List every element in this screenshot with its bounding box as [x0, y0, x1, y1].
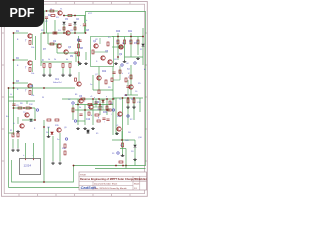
- diode D8: [142, 44, 145, 46]
- transistor Q5: [66, 31, 70, 35]
- resistor R23: [69, 64, 71, 68]
- wire: [102, 99, 104, 110]
- svg-text:R7: R7: [43, 49, 47, 51]
- resistor R52: [92, 50, 94, 54]
- svg-text:T: T: [25, 66, 27, 70]
- wire collector Q2: [31, 61, 33, 72]
- svg-text:Q4: Q4: [93, 41, 97, 43]
- wire: [69, 68, 71, 74]
- wire: [84, 26, 86, 33]
- wire: [77, 99, 79, 125]
- svg-text:+5: +5: [90, 96, 93, 98]
- wire: [43, 68, 45, 74]
- svg-text:R8: R8: [80, 48, 84, 50]
- ground: [61, 74, 65, 77]
- wire: [43, 11, 45, 33]
- capacitor C1: [45, 17, 48, 18]
- wire: [112, 36, 143, 38]
- wire: [59, 133, 61, 161]
- ground: [114, 62, 118, 65]
- svg-text:Q9: Q9: [119, 54, 123, 56]
- wire: [46, 19, 48, 33]
- svg-text:W: W: [42, 97, 44, 99]
- svg-text:f: f: [111, 114, 112, 116]
- wire: [98, 67, 100, 91]
- svg-text:K: K: [34, 128, 36, 130]
- ground: [84, 62, 88, 65]
- wire battery -: [33, 143, 35, 158]
- wire: [125, 149, 127, 166]
- wire: [130, 65, 132, 95]
- wire: [134, 148, 136, 160]
- svg-text:C2: C2: [45, 21, 48, 23]
- resistor R62: [109, 101, 111, 104]
- wire: [120, 148, 126, 150]
- svg-text:Q2: Q2: [53, 41, 57, 43]
- wire: [57, 52, 76, 54]
- ground: [16, 130, 20, 133]
- wire: [75, 109, 110, 111]
- node: [30, 107, 32, 109]
- diode D12: [134, 145, 137, 147]
- resistor R44: [122, 143, 124, 147]
- wire: [127, 98, 129, 125]
- wire: [75, 104, 113, 106]
- svg-text:R9: R9: [108, 87, 111, 89]
- svg-text:e: e: [106, 96, 107, 98]
- node: [77, 104, 79, 106]
- svg-text:Q8: Q8: [47, 127, 51, 129]
- resistor R27: [26, 107, 30, 109]
- wire: [85, 52, 87, 60]
- transistor Q16: [20, 124, 24, 128]
- wire: [130, 33, 132, 57]
- wire: [52, 136, 54, 161]
- svg-text:2k: 2k: [79, 107, 81, 109]
- node: [130, 36, 132, 38]
- resistor R29: [55, 119, 59, 121]
- svg-text:C8: C8: [86, 30, 90, 32]
- resistor R66: [74, 27, 76, 30]
- svg-text:S: S: [96, 61, 98, 63]
- svg-text:S1: S1: [112, 153, 115, 155]
- svg-text:Q3: Q3: [68, 47, 72, 49]
- wire: [115, 98, 117, 135]
- wire: [34, 108, 36, 120]
- wire: [48, 127, 50, 135]
- wire: [95, 168, 146, 170]
- wire: [17, 117, 19, 124]
- node: [13, 87, 15, 89]
- svg-text:TITLE:: TITLE:: [80, 174, 87, 176]
- wire: [95, 99, 97, 107]
- svg-text:c: c: [84, 101, 85, 103]
- node: [34, 119, 36, 121]
- svg-text:K1: K1: [96, 133, 99, 135]
- svg-text:T2: T2: [127, 69, 130, 71]
- frame column ticks top: [2, 2, 148, 197]
- svg-text:D9: D9: [131, 151, 134, 153]
- ground: [91, 127, 95, 130]
- resistor R60: [81, 98, 85, 100]
- connector pad P4: [36, 109, 38, 111]
- resistor R11: [29, 41, 31, 45]
- svg-text:2k: 2k: [54, 59, 56, 61]
- svg-text:10k: 10k: [31, 95, 34, 97]
- node: [117, 36, 119, 38]
- ground: [11, 149, 15, 152]
- resistor R68: [97, 120, 100, 122]
- resistor R11: [78, 52, 80, 56]
- svg-text:Sheet:: Sheet:: [134, 183, 140, 186]
- svg-text:R6: R6: [20, 103, 23, 105]
- diode D9: [87, 130, 90, 132]
- svg-text:F1: F1: [10, 130, 13, 132]
- wire: [112, 67, 114, 96]
- resistor R38: [17, 133, 19, 137]
- resistor R19: [105, 80, 107, 84]
- ground: [123, 60, 127, 63]
- transistor Q1: [28, 34, 32, 38]
- ground: [76, 127, 80, 130]
- svg-text:1n: 1n: [90, 84, 92, 86]
- svg-text:d: d: [91, 115, 92, 117]
- resistor R26: [18, 107, 22, 109]
- svg-text:12/24: 12/24: [24, 164, 32, 168]
- relay contact: [87, 131, 90, 133]
- wire: [9, 96, 15, 98]
- wire: [9, 100, 36, 102]
- wire left rail: [13, 33, 15, 135]
- resistor R18: [125, 78, 127, 82]
- wire: [93, 89, 113, 91]
- svg-text:Q9: Q9: [64, 127, 68, 129]
- svg-text:B1: B1: [75, 94, 78, 96]
- ground: [16, 149, 20, 152]
- frame outer border: [2, 2, 148, 197]
- svg-text:T: T: [25, 89, 27, 93]
- svg-text:Date: 2023-05-10 Drawn By:: Date: 2023-05-10 Drawn By: Maruthi: [94, 187, 127, 190]
- ground: [68, 74, 72, 77]
- svg-text:C13: C13: [137, 102, 142, 104]
- wire: [17, 139, 19, 148]
- transistor Q6: [57, 44, 61, 48]
- diode D4: [74, 22, 77, 24]
- svg-text:R21: R21: [128, 31, 133, 33]
- svg-text:R12: R12: [29, 104, 34, 106]
- resistor R37: [12, 133, 14, 137]
- wire: [92, 75, 94, 90]
- capacitor C23: [106, 119, 109, 120]
- node: [84, 109, 86, 111]
- svg-text:1k: 1k: [136, 41, 138, 43]
- ground: [78, 62, 82, 65]
- wire: [74, 25, 76, 33]
- wire feedback: [35, 36, 37, 60]
- wire: [62, 98, 115, 100]
- node: [63, 15, 65, 17]
- connector pad P6: [65, 138, 67, 140]
- ground: [115, 132, 119, 135]
- wire: [112, 95, 114, 135]
- wire: [78, 72, 80, 81]
- capacitor C7: [83, 24, 86, 26]
- svg-text:g: g: [98, 117, 99, 119]
- svg-text:Q1: Q1: [70, 30, 74, 32]
- svg-text:G2: G2: [126, 63, 130, 65]
- wire: [9, 132, 14, 134]
- svg-text:F2: F2: [130, 119, 133, 121]
- connector pad P3: [74, 120, 76, 122]
- ground: [136, 57, 140, 60]
- capacitor C14: [68, 24, 71, 25]
- svg-text:B: B: [17, 89, 19, 91]
- svg-text:-: -: [32, 154, 33, 157]
- svg-text:Document Number: Sheet: Document Number: Sheet: [94, 183, 118, 186]
- svg-text:C5: C5: [65, 19, 69, 21]
- wire: [75, 54, 77, 62]
- connector pad P8: [117, 152, 119, 154]
- node: [23, 107, 25, 109]
- ground: [121, 154, 125, 157]
- ground: [48, 74, 52, 77]
- node: [98, 98, 100, 100]
- svg-text:a: a: [94, 97, 95, 99]
- node: [13, 107, 15, 109]
- node: [122, 97, 124, 99]
- wire: [92, 99, 94, 125]
- resistor R46: [119, 161, 123, 163]
- ground: [83, 127, 87, 130]
- node: [112, 98, 114, 100]
- node: [106, 98, 108, 100]
- resistor R61: [88, 104, 92, 106]
- svg-text:4k: 4k: [66, 59, 68, 61]
- transistor Q21: [108, 60, 112, 64]
- ground: [51, 162, 55, 165]
- svg-text:R36: R36: [62, 148, 67, 150]
- node: [121, 139, 123, 141]
- svg-text:R+: R+: [108, 37, 111, 39]
- wire: [112, 139, 135, 141]
- wire: [63, 15, 86, 17]
- wire: [84, 105, 86, 126]
- resistor R32: [72, 108, 74, 112]
- wire: [125, 94, 138, 96]
- svg-text:2k: 2k: [122, 43, 124, 45]
- transistor Q19: [117, 127, 121, 131]
- node: [122, 165, 124, 167]
- connector pad P5: [72, 102, 74, 104]
- node: [125, 94, 127, 96]
- transistor Q22: [77, 82, 81, 86]
- connector pad P9: [121, 64, 123, 66]
- transistor Q13: [79, 99, 83, 103]
- wire battery +: [25, 143, 27, 158]
- node: [115, 165, 117, 167]
- node: [43, 87, 45, 89]
- wire: [121, 131, 123, 140]
- transistor Q9: [101, 56, 105, 60]
- resistor R55: [111, 78, 113, 82]
- resistor R13: [117, 40, 119, 44]
- resistor R64: [88, 112, 90, 115]
- svg-text:Q10: Q10: [138, 137, 143, 139]
- svg-text:VB: VB: [30, 85, 34, 88]
- wire: [26, 101, 28, 104]
- svg-text:10k: 10k: [31, 47, 34, 49]
- wire: [112, 46, 124, 48]
- node: [133, 97, 135, 99]
- frame inner border: [4, 4, 144, 193]
- svg-text:D8: D8: [128, 132, 131, 134]
- resistor R10: [78, 44, 80, 48]
- wire left bus GND: [8, 88, 10, 188]
- node: [54, 32, 56, 34]
- capacitor C9: [74, 52, 77, 53]
- svg-text:D1: D1: [58, 30, 61, 32]
- node VIN: [46, 10, 48, 12]
- connector pad P1: [77, 39, 79, 41]
- ground: [132, 106, 136, 109]
- svg-text:R35: R35: [55, 125, 60, 127]
- node: [142, 36, 144, 38]
- wire: [125, 166, 127, 169]
- svg-text:j: j: [103, 121, 105, 123]
- transistor Q3: [28, 84, 32, 88]
- wire: [113, 79, 120, 81]
- wire base Q2: [14, 59, 29, 61]
- resistor R25: [95, 114, 99, 116]
- resistor R5: [53, 32, 57, 34]
- node: [43, 181, 45, 183]
- wire: [119, 66, 121, 80]
- wire: [41, 61, 72, 63]
- resistor R12: [29, 68, 31, 72]
- resistor R15: [130, 40, 132, 44]
- wire: [72, 105, 74, 120]
- node: [117, 56, 119, 58]
- transistor Q4: [58, 11, 62, 15]
- resistor R14: [124, 40, 126, 44]
- resistor R22: [62, 64, 64, 68]
- node A: [43, 32, 45, 34]
- wire: [133, 98, 135, 120]
- svg-text:VCC: VCC: [88, 13, 93, 15]
- connector pad P10: [127, 115, 129, 117]
- wire bottom bus: [9, 187, 146, 189]
- node: [127, 97, 129, 99]
- node N1: [13, 32, 15, 34]
- resistor R65: [63, 27, 65, 30]
- svg-text:G: G: [13, 123, 15, 125]
- resistor R16: [137, 40, 139, 44]
- node N3: [13, 82, 15, 84]
- transistor Q7: [64, 50, 68, 54]
- transistor Q11: [129, 85, 133, 89]
- resistor R13: [29, 91, 31, 95]
- svg-text:R9: R9: [70, 56, 74, 58]
- transistor Q10: [119, 45, 123, 49]
- wire mid bus: [41, 32, 86, 34]
- module box U2: [91, 37, 114, 67]
- transistor Q17: [57, 128, 61, 132]
- svg-text:4k: 4k: [88, 107, 90, 109]
- svg-text:C6: C6: [76, 19, 80, 21]
- node N2: [13, 59, 15, 61]
- capacitor C15: [78, 40, 81, 41]
- node: [106, 109, 108, 111]
- transistor Q8: [94, 44, 98, 48]
- wire: [14, 107, 36, 109]
- svg-text:B: B: [17, 65, 19, 67]
- resistor R51: [68, 15, 72, 17]
- node: [85, 32, 87, 34]
- svg-text:1k: 1k: [120, 145, 122, 147]
- wire: [99, 99, 101, 115]
- wire: [77, 120, 85, 122]
- wire signal bus: [9, 87, 76, 89]
- wire: [78, 36, 80, 66]
- resistor R24: [106, 106, 108, 110]
- wire: [93, 106, 103, 108]
- resistor R56: [75, 78, 77, 81]
- svg-text:R22: R22: [102, 71, 107, 73]
- wire: [113, 97, 143, 99]
- diode D11: [51, 132, 54, 134]
- net outline right block: [12, 12, 146, 183]
- wire: [137, 37, 139, 56]
- svg-text:T4: T4: [119, 99, 122, 101]
- svg-text:REV: 1.0: REV: 1.0: [134, 179, 143, 181]
- resistor R6: [50, 43, 54, 45]
- wire: [139, 98, 141, 112]
- resistor R20: [43, 64, 45, 68]
- resistor R40: [127, 99, 129, 103]
- svg-text:SolarCtrl: SolarCtrl: [53, 81, 62, 84]
- svg-text:C12: C12: [86, 119, 91, 121]
- resistor R21: [49, 64, 51, 68]
- wire: [122, 98, 124, 155]
- svg-text:+: +: [80, 25, 82, 27]
- wire: [125, 56, 144, 58]
- wire: [49, 68, 51, 74]
- svg-text:h: h: [122, 73, 123, 75]
- svg-text:2: 2: [128, 77, 129, 79]
- node: [74, 32, 76, 34]
- wire: [117, 33, 119, 60]
- wire: [99, 38, 101, 44]
- diode D3: [63, 22, 66, 24]
- wire: [48, 43, 62, 45]
- wire: [40, 33, 42, 66]
- svg-text:10: 10: [135, 91, 138, 93]
- svg-text:G: G: [10, 94, 12, 96]
- wire: [124, 37, 126, 61]
- wire: [93, 51, 108, 53]
- wire: [84, 16, 86, 24]
- transistor Q14: [89, 105, 93, 109]
- svg-text:G1: G1: [114, 59, 118, 61]
- wire: [12, 139, 14, 148]
- resistor R17: [130, 75, 132, 79]
- wire: [63, 25, 65, 33]
- resistor R41: [133, 99, 135, 103]
- wire collector Q1: [31, 34, 33, 45]
- svg-text:B: B: [17, 39, 19, 41]
- ground: [133, 158, 137, 161]
- node: [92, 98, 94, 100]
